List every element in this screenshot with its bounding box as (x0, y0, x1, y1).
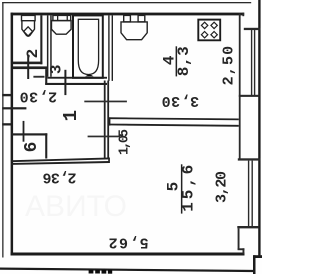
wall kitchen-room5 line b (108, 125, 239, 126)
window W2 glass line b (252, 161, 253, 227)
wall bathroom bottom upper line (47, 77, 107, 79)
wall tick left 3 (2, 123, 11, 125)
svg-text:2: 2 (24, 49, 42, 59)
lower structure dash 4 (108, 270, 112, 274)
wall kitchen-room5 left cap (109, 117, 111, 125)
window W1 bottom jamb (239, 95, 259, 97)
wall room6 top (12, 133, 48, 135)
window W2 glass line a (248, 161, 249, 227)
stove burner bl (201, 32, 207, 38)
wall corridor-kitchen line a (104, 81, 106, 159)
svg-text:6: 6 (22, 142, 42, 153)
wall room5 corner jog v (243, 248, 245, 254)
wall stub right of room2 v (45, 69, 47, 85)
door cross room3 (64, 70, 66, 95)
wall divider rooms2-3 line b (50, 15, 52, 76)
lower structure dash 1 (89, 270, 94, 274)
washbasin bowl room2 (22, 21, 35, 36)
wall bathroom-kitchen line a (108, 15, 109, 81)
toilet tank room3 left (53, 15, 71, 20)
stove burner tl (201, 22, 207, 28)
frame top line (2, 2, 251, 3)
svg-text:1: 1 (60, 110, 82, 121)
door line room2 short h (33, 76, 44, 78)
stove burner br (211, 32, 217, 38)
svg-text:2,50: 2,50 (221, 46, 238, 86)
kitchen sink tap left (124, 15, 131, 22)
bathtub inner (78, 19, 98, 74)
wall top-right end stub (242, 13, 244, 17)
bathtub outer (73, 15, 103, 77)
wall left outer (11, 13, 14, 256)
wall corridor bottom right cap (108, 158, 110, 164)
kitchen sink tap right (138, 15, 145, 22)
wall room2 bottom lower line (13, 66, 47, 69)
wall top outer (11, 13, 245, 16)
wall tick left 2 (2, 107, 26, 109)
window W2 bottom jamb (237, 226, 258, 228)
wall bathroom-kitchen line b (112, 15, 113, 81)
wall tick left 1 (2, 94, 11, 96)
svg-text:3,30: 3,30 (162, 92, 200, 109)
wall room5 right inner face below window (238, 228, 240, 249)
wall corridor bottom line b (12, 162, 110, 164)
window W1 glass line b (254, 29, 255, 96)
door cross room2 (27, 55, 29, 79)
washbasin diamond room2 (24, 27, 33, 36)
svg-text:1,05: 1,05 (117, 129, 132, 155)
wall room5 corner jog h (238, 248, 245, 250)
kitchen sink bowl (121, 22, 147, 40)
svg-text:5,62: 5,62 (109, 233, 149, 250)
wall below bottom-right outer v (253, 255, 256, 274)
door line kitchen (84, 101, 127, 103)
wall right outer (258, 0, 260, 257)
washbasin tank room2 (22, 15, 36, 20)
room label 5 fraction bar (181, 164, 183, 213)
window W2 top jamb (238, 158, 260, 160)
lower structure dash 3 (102, 270, 107, 274)
wall room6 right (45, 133, 47, 158)
svg-text:2,36: 2,36 (43, 169, 77, 186)
wall bathroom bottom lower line (45, 83, 107, 85)
frame left line (2, 2, 3, 258)
stove burner tr (211, 22, 217, 28)
dimension line 1.05 (88, 136, 121, 138)
toilet tank room3 right (57, 16, 58, 21)
wall corridor bottom line a (12, 158, 110, 161)
wall divider rooms2-3 line a (47, 15, 49, 76)
wall room2 right (40, 15, 42, 64)
toilet bowl room3 (52, 21, 72, 35)
bathtub drain mark (85, 75, 93, 77)
room label 4 fraction bar (176, 46, 178, 76)
wall below bottom-right outer h (253, 255, 262, 258)
svg-text:АВИТО: АВИТО (25, 190, 127, 223)
wall room2 bottom upper line (13, 62, 42, 65)
svg-text:2,30: 2,30 (20, 87, 58, 104)
wall bottom outer (11, 253, 245, 256)
wall kitchen-room5 line a (108, 118, 239, 119)
svg-text:3: 3 (48, 64, 66, 74)
window W1 glass line a (251, 29, 252, 96)
door cross room6 (23, 121, 25, 142)
svg-text:3,20: 3,20 (214, 171, 231, 203)
lower structure dash 2 (95, 270, 100, 274)
svg-text:8,3: 8,3 (175, 46, 193, 76)
lower structure line (0, 269, 254, 271)
wall corridor-kitchen line b (107, 81, 109, 159)
window W1 top jamb (244, 28, 261, 30)
wall kitchen right inner face (239, 14, 241, 160)
stove outline (198, 20, 220, 41)
